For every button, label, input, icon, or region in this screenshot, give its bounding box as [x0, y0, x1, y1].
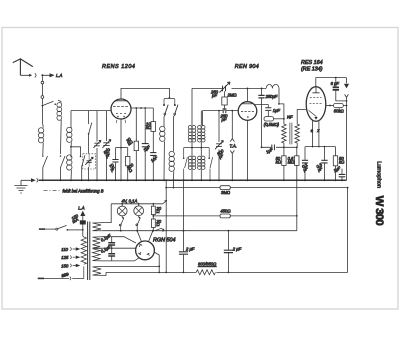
wire chain x42	[41, 106, 43, 124]
resistor R 0.5M	[295, 156, 299, 166]
svg-text:1μF: 1μF	[273, 108, 281, 113]
bottom rail	[106, 271, 348, 273]
resistor R 300 ohm	[127, 148, 129, 181]
switch S7	[174, 104, 176, 106]
svg-text:150: 150	[61, 263, 69, 268]
wire plate to resistor	[326, 105, 334, 107]
node	[135, 107, 137, 109]
tube V4 RGN 504	[136, 241, 155, 260]
wire plate REN904 to transformer	[255, 104, 284, 124]
wire top grid line	[192, 87, 266, 89]
IF T2 winding right	[198, 156, 205, 169]
ground	[15, 180, 28, 193]
IF transformer T1 feed wires	[192, 88, 201, 125]
mains wire 220 tap	[38, 277, 44, 279]
node	[346, 105, 348, 107]
svg-text:110: 110	[61, 247, 68, 252]
capacitor C 0,1uF upper	[102, 237, 136, 249]
plug connector	[35, 73, 36, 77]
coil L5 osc	[160, 126, 165, 141]
terminal arrow up	[81, 212, 85, 221]
resistor R 10k screen	[152, 108, 154, 153]
primary tap 110	[70, 247, 71, 250]
secondary winding w3	[93, 248, 103, 261]
trimmer capacitor C pad1	[96, 111, 98, 181]
wire grid to tube	[203, 110, 239, 112]
switch S1 antenna	[42, 105, 44, 107]
tube V2 REN 904	[238, 102, 257, 121]
capacitor C 70pF	[115, 148, 117, 181]
svg-text:RES 164: RES 164	[301, 60, 323, 66]
svg-text:(RE 134): (RE 134)	[301, 67, 323, 73]
fuse 150mA	[80, 221, 85, 224]
switch S9	[209, 148, 212, 181]
coil L4	[67, 155, 72, 170]
svg-text:W 300: W 300	[373, 196, 385, 226]
wire heater horizontal	[305, 147, 336, 160]
svg-text:Lumophon: Lumophon	[376, 161, 382, 188]
vertical bus to rail C drop	[183, 180, 185, 230]
lamp P1	[117, 206, 127, 216]
svg-text:kΩ: kΩ	[339, 160, 345, 165]
secondary winding w1	[93, 223, 104, 231]
heater pins RES164	[313, 120, 319, 146]
vertical right HT	[347, 188, 349, 273]
arrow heater lower right	[155, 228, 164, 231]
capacitor C 0,5uF	[321, 160, 327, 163]
capacitor C 0,1uF	[302, 160, 308, 163]
capacitor C 1uF at bus end	[341, 169, 343, 181]
wire cathode right	[154, 252, 159, 266]
node	[278, 103, 280, 105]
trimmer capacitor C pad2	[106, 111, 108, 181]
resistor R 30k	[135, 108, 137, 180]
wire w4 to bottom rail	[103, 266, 159, 275]
trimmer capacitor dashed box	[83, 154, 96, 169]
variable capacitor C 500pF tone	[218, 110, 220, 112]
switch S8	[184, 148, 188, 181]
svg-text:pF: pF	[221, 117, 227, 122]
secondary winding w2	[93, 237, 103, 248]
resistor R 50k right	[333, 156, 337, 166]
lamp rail	[111, 203, 163, 205]
coil L7 HF choke	[266, 85, 279, 104]
wire to bus with arrow	[21, 179, 35, 182]
wire w3 bottom to tube	[102, 258, 139, 261]
wire plate top RES164	[316, 78, 347, 88]
coil L3	[70, 111, 72, 128]
resistor R 0.5M	[264, 117, 274, 121]
rail B 450 line	[153, 215, 296, 217]
svg-text:MΩ: MΩ	[288, 160, 295, 165]
node	[346, 100, 348, 102]
switch S3	[61, 156, 66, 168]
svg-text:T.A.: T.A.	[230, 144, 237, 149]
wire cathode down	[247, 120, 249, 180]
svg-text:600/850Ω: 600/850Ω	[198, 261, 217, 266]
node antenna junction	[41, 74, 43, 76]
coil L2	[38, 128, 43, 143]
wire plate top	[247, 88, 249, 101]
primary tap 125	[70, 256, 71, 259]
IF T1 winding right	[198, 126, 205, 143]
coil L1 antenna coil	[57, 103, 62, 121]
switch lamp P2	[139, 217, 141, 219]
resistor R 50k anode	[334, 103, 344, 107]
svg-text:4V, 0,1A: 4V, 0,1A	[122, 198, 138, 203]
switch lamp P1	[122, 217, 124, 219]
wire middle junction	[184, 142, 210, 148]
wire w1 to lamps	[103, 204, 111, 223]
svg-text:2 μF: 2 μF	[185, 247, 195, 252]
switch S6	[164, 98, 175, 104]
node 6uF top	[335, 77, 337, 79]
switch S4	[80, 156, 82, 158]
svg-text:RGN 504: RGN 504	[153, 237, 175, 243]
svg-text:125: 125	[61, 255, 69, 260]
capacitor C 250pF coupling	[261, 88, 263, 90]
capacitor C below 10k	[150, 153, 156, 156]
capacitor C 1uF	[144, 108, 146, 180]
wire plate right	[131, 107, 153, 109]
capacitor C 2uF left	[183, 231, 185, 273]
loudspeaker terminals	[345, 78, 349, 88]
dash-dot note line	[44, 190, 60, 192]
svg-text:REN 904: REN 904	[235, 64, 259, 70]
svg-text:(0,5MΩ): (0,5MΩ)	[264, 122, 280, 127]
main bus wire	[39, 179, 347, 181]
vertical from 3M line to bottom	[165, 180, 167, 272]
resistor R 20 ohm upper	[152, 203, 154, 205]
capacitor C 6uF	[336, 78, 347, 101]
svg-text:450Ω: 450Ω	[220, 208, 231, 213]
primary tap 150	[70, 264, 71, 267]
svg-text:2 μF: 2 μF	[232, 247, 242, 252]
wire antenna to plug	[20, 74, 31, 76]
svg-text:L.A: L.A	[56, 73, 62, 78]
capacitor C 2uF right	[227, 231, 229, 273]
svg-text:250μF: 250μF	[265, 94, 278, 99]
resistor R 450 ohm	[220, 214, 230, 218]
capacitor C 1uF series	[272, 145, 275, 151]
transformer T interstage primary	[282, 124, 286, 143]
svg-text:pF: pF	[211, 93, 217, 98]
coil L6 osc	[169, 151, 174, 171]
capacitor C 1uF	[267, 105, 269, 108]
resistor R 50k grid	[282, 156, 286, 166]
svg-text:L.A: L.A	[78, 205, 84, 210]
wire down with connector circles	[41, 76, 43, 105]
wire bus to 3M line	[172, 180, 174, 187]
antenna	[13, 59, 33, 75]
wire secondary top to grid	[297, 110, 306, 125]
node rail B	[152, 215, 154, 219]
wire grid line	[71, 110, 111, 112]
resistor R 3M	[220, 186, 230, 190]
secondary winding w4	[93, 266, 104, 275]
svg-text:50kΩ: 50kΩ	[334, 109, 345, 114]
capacitor C grid series	[224, 105, 226, 111]
svg-text:3MΩ: 3MΩ	[221, 190, 231, 195]
tube V3 RES 164	[306, 87, 326, 122]
node	[144, 107, 146, 109]
variable capacitor C tuning	[223, 86, 226, 92]
transformer core	[290, 123, 292, 145]
wire cathode down	[120, 119, 122, 180]
svg-text:NF: NF	[287, 114, 293, 119]
resistor R 600/850 zigzag	[196, 270, 215, 275]
wire plate top	[121, 88, 169, 99]
tube V1 RENS 1204	[111, 99, 131, 119]
IF T1 winding left	[188, 126, 195, 143]
resistor R 2M grid leak	[224, 91, 226, 97]
capacitor C 0,1uF lower	[102, 247, 136, 249]
svg-text:kΩ: kΩ	[146, 125, 152, 130]
resistor R 20 ohm lower	[151, 219, 155, 227]
switch S2	[43, 156, 48, 168]
wire transformer bottoms	[284, 143, 297, 156]
rail C	[103, 230, 297, 232]
arrow heater right	[163, 200, 167, 204]
wire anodes to rail C	[137, 231, 153, 242]
bus junction nodes	[42, 179, 343, 181]
switch S5 wave band	[88, 111, 90, 124]
vertical right B+	[296, 180, 298, 230]
transformer T interstage secondary	[295, 124, 299, 143]
node	[140, 107, 142, 109]
node L3 tap	[70, 146, 72, 148]
transformer T power primary	[83, 230, 84, 237]
wire bias line	[262, 147, 297, 156]
IF T2 winding left	[188, 156, 195, 169]
T.A. pickup terminals	[231, 110, 233, 112]
arrow to L.A terminal	[42, 74, 53, 77]
3M line	[166, 187, 347, 189]
mains switch	[39, 228, 45, 230]
lamp P2	[134, 206, 144, 216]
svg-text:6 μF: 6 μF	[331, 81, 340, 86]
node top of band switches	[169, 97, 171, 99]
pin marks	[116, 120, 126, 123]
svg-text:RENS 1204: RENS 1204	[102, 64, 135, 70]
svg-text:kΩ: kΩ	[276, 160, 282, 165]
svg-text:2MΩ: 2MΩ	[227, 92, 238, 97]
transformer core	[88, 222, 90, 281]
svg-text:fehlt bei Ausführung B: fehlt bei Ausführung B	[63, 189, 104, 194]
